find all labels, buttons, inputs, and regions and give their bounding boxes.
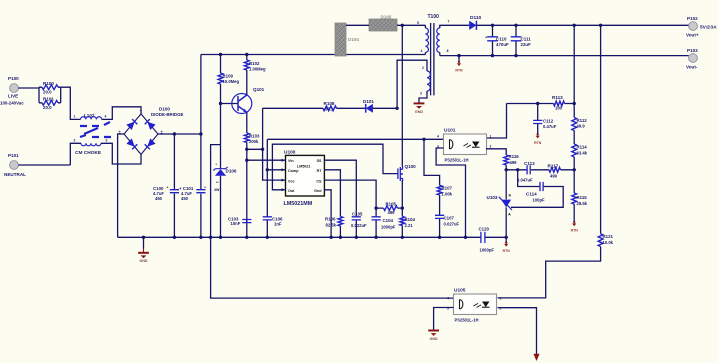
svg-text:D105: D105	[381, 15, 392, 20]
svg-text:U100: U100	[284, 150, 296, 156]
svg-text:2.21: 2.21	[405, 223, 414, 228]
svg-text:C112: C112	[543, 119, 554, 124]
svg-text:GND: GND	[415, 110, 424, 114]
svg-text:R116: R116	[509, 154, 520, 159]
svg-text:49.9: 49.9	[577, 124, 586, 129]
svg-text:0.047uF: 0.047uF	[517, 178, 533, 183]
svg-text:DIODE-BRIDGE: DIODE-BRIDGE	[151, 112, 184, 117]
svg-text:1000pF: 1000pF	[480, 248, 495, 253]
svg-text:2: 2	[74, 139, 76, 143]
svg-text:1.00Meg: 1.00Meg	[249, 66, 266, 71]
svg-text:R105: R105	[386, 202, 397, 207]
svg-text:U101: U101	[444, 128, 456, 134]
svg-text:R114: R114	[577, 145, 588, 150]
svg-text:RTN: RTN	[534, 141, 542, 145]
svg-text:P103: P103	[687, 48, 698, 53]
svg-text:R121: R121	[603, 234, 614, 239]
svg-text:1: 1	[74, 115, 76, 119]
svg-text:Vout+: Vout+	[686, 33, 699, 38]
svg-text:499: 499	[510, 160, 518, 165]
svg-text:R101: R101	[43, 96, 54, 101]
svg-text:10.0Meg: 10.0Meg	[223, 79, 240, 84]
svg-text:28.5k: 28.5k	[577, 201, 588, 206]
svg-text:0.027uF: 0.027uF	[444, 222, 460, 227]
svg-text:470uF: 470uF	[496, 42, 509, 47]
svg-text:C113: C113	[524, 161, 535, 166]
svg-text:A: A	[508, 211, 511, 216]
svg-text:LIVE: LIVE	[8, 94, 18, 99]
svg-text:SS: SS	[317, 159, 322, 163]
svg-text:D110: D110	[470, 15, 482, 21]
svg-text:4: 4	[447, 297, 449, 301]
svg-text:C120: C120	[479, 227, 490, 232]
svg-text:2: 2	[422, 66, 424, 70]
svg-text:10.0k: 10.0k	[603, 240, 614, 245]
svg-text:3: 3	[420, 92, 422, 96]
svg-text:NEUTRAL: NEUTRAL	[4, 172, 26, 177]
svg-text:2: 2	[490, 145, 492, 149]
svg-text:D104: D104	[348, 37, 359, 42]
svg-text:1: 1	[490, 135, 492, 139]
svg-text:1: 1	[500, 297, 502, 301]
svg-text:R108: R108	[324, 101, 335, 106]
svg-text:K: K	[509, 193, 512, 198]
svg-text:Vin: Vin	[288, 159, 294, 163]
svg-text:D101: D101	[363, 99, 374, 104]
svg-text:R104: R104	[405, 217, 416, 222]
svg-text:10nF: 10nF	[231, 221, 241, 226]
svg-text:3: 3	[106, 139, 108, 143]
svg-text:R112: R112	[577, 118, 588, 123]
svg-text:RTN: RTN	[503, 249, 511, 253]
svg-text:450: 450	[181, 196, 189, 201]
svg-text:499: 499	[388, 210, 396, 215]
svg-text:1nF: 1nF	[274, 222, 282, 227]
svg-text:200k: 200k	[249, 139, 259, 144]
svg-text:CM CHOKE: CM CHOKE	[75, 150, 102, 156]
svg-text:C111: C111	[521, 37, 532, 42]
svg-text:GND: GND	[429, 337, 438, 341]
svg-text:PS2501L-1H: PS2501L-1H	[445, 158, 469, 163]
svg-text:Gnd: Gnd	[314, 189, 322, 193]
svg-text:5V@3A: 5V@3A	[700, 25, 717, 31]
svg-text:63.4k: 63.4k	[577, 151, 588, 156]
svg-text:+: +	[167, 186, 169, 190]
svg-text:Q101: Q101	[253, 87, 265, 92]
svg-text:P101: P101	[8, 153, 19, 158]
svg-text:Vout-: Vout-	[686, 65, 698, 70]
svg-text:U103: U103	[487, 195, 498, 200]
svg-text:499: 499	[550, 174, 558, 179]
svg-text:4: 4	[437, 135, 439, 139]
svg-text:5: 5	[417, 21, 419, 25]
svg-text:100: 100	[555, 106, 563, 111]
svg-text:LM5021: LM5021	[297, 165, 311, 169]
svg-text:PS2501L-1H: PS2501L-1H	[455, 318, 479, 323]
svg-text:C114: C114	[526, 192, 537, 197]
svg-text:RTN: RTN	[571, 229, 579, 233]
svg-text:450: 450	[155, 196, 163, 201]
svg-text:20.0: 20.0	[43, 105, 52, 110]
svg-text:R102: R102	[249, 61, 260, 66]
svg-text:D100: D100	[159, 107, 170, 112]
svg-text:LM5021MM: LM5021MM	[284, 201, 313, 207]
svg-text:C110: C110	[496, 37, 507, 42]
svg-text:4: 4	[105, 115, 107, 119]
svg-text:3W: 3W	[214, 188, 220, 192]
svg-text:R109: R109	[223, 74, 234, 79]
svg-text:Comp: Comp	[288, 169, 299, 173]
svg-text:0.47uF: 0.47uF	[543, 124, 557, 129]
svg-text:P100: P100	[8, 76, 19, 81]
svg-text:C105: C105	[352, 212, 363, 217]
svg-text:D106: D106	[226, 169, 237, 174]
svg-text:R117: R117	[548, 164, 559, 169]
svg-text:L102: L102	[84, 113, 95, 118]
svg-text:100-240Vac: 100-240Vac	[0, 101, 24, 106]
svg-text:U105: U105	[454, 288, 466, 294]
svg-text:P102: P102	[687, 16, 698, 21]
svg-text:20.0: 20.0	[43, 90, 52, 95]
svg-text:GND: GND	[139, 259, 148, 263]
svg-text:R100: R100	[43, 81, 54, 86]
svg-text:RT: RT	[317, 169, 323, 173]
svg-text:CS: CS	[316, 179, 322, 183]
svg-text:4: 4	[421, 49, 423, 53]
svg-text:7: 7	[448, 20, 450, 24]
svg-text:T100: T100	[428, 14, 440, 20]
svg-text:R113: R113	[552, 95, 563, 100]
svg-text:R107: R107	[442, 186, 453, 191]
svg-text:22uF: 22uF	[521, 42, 532, 47]
svg-text:Q100: Q100	[405, 164, 417, 169]
svg-text:+: +	[204, 186, 206, 190]
svg-text:Out: Out	[288, 189, 295, 193]
svg-text:RTN: RTN	[455, 68, 463, 72]
svg-text:Vcc: Vcc	[288, 179, 295, 183]
svg-text:8: 8	[447, 49, 449, 53]
svg-text:1.00k: 1.00k	[442, 191, 453, 196]
svg-text:C107: C107	[444, 216, 455, 221]
svg-text:1000pF: 1000pF	[381, 225, 396, 230]
svg-text:C104: C104	[383, 218, 394, 223]
svg-text:30.1: 30.1	[325, 107, 334, 112]
svg-text:R115: R115	[577, 195, 588, 200]
svg-text:100pF: 100pF	[533, 198, 546, 203]
svg-text:R103: R103	[249, 134, 260, 139]
svg-text:0.022uF: 0.022uF	[351, 223, 367, 228]
